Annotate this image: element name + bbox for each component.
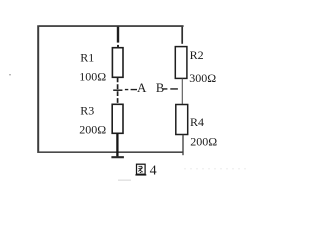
svg-text:R2: R2 bbox=[190, 48, 204, 62]
svg-text:A: A bbox=[137, 80, 147, 95]
svg-text:B: B bbox=[156, 81, 164, 95]
svg-text:R3: R3 bbox=[80, 103, 94, 117]
svg-text:4: 4 bbox=[150, 164, 157, 179]
svg-text:100Ω: 100Ω bbox=[79, 69, 106, 83]
svg-text:300Ω: 300Ω bbox=[189, 71, 216, 85]
svg-text:R4: R4 bbox=[190, 115, 204, 129]
svg-text:200Ω: 200Ω bbox=[190, 135, 217, 149]
svg-text:R1: R1 bbox=[80, 51, 94, 65]
svg-text:200Ω: 200Ω bbox=[79, 123, 106, 137]
